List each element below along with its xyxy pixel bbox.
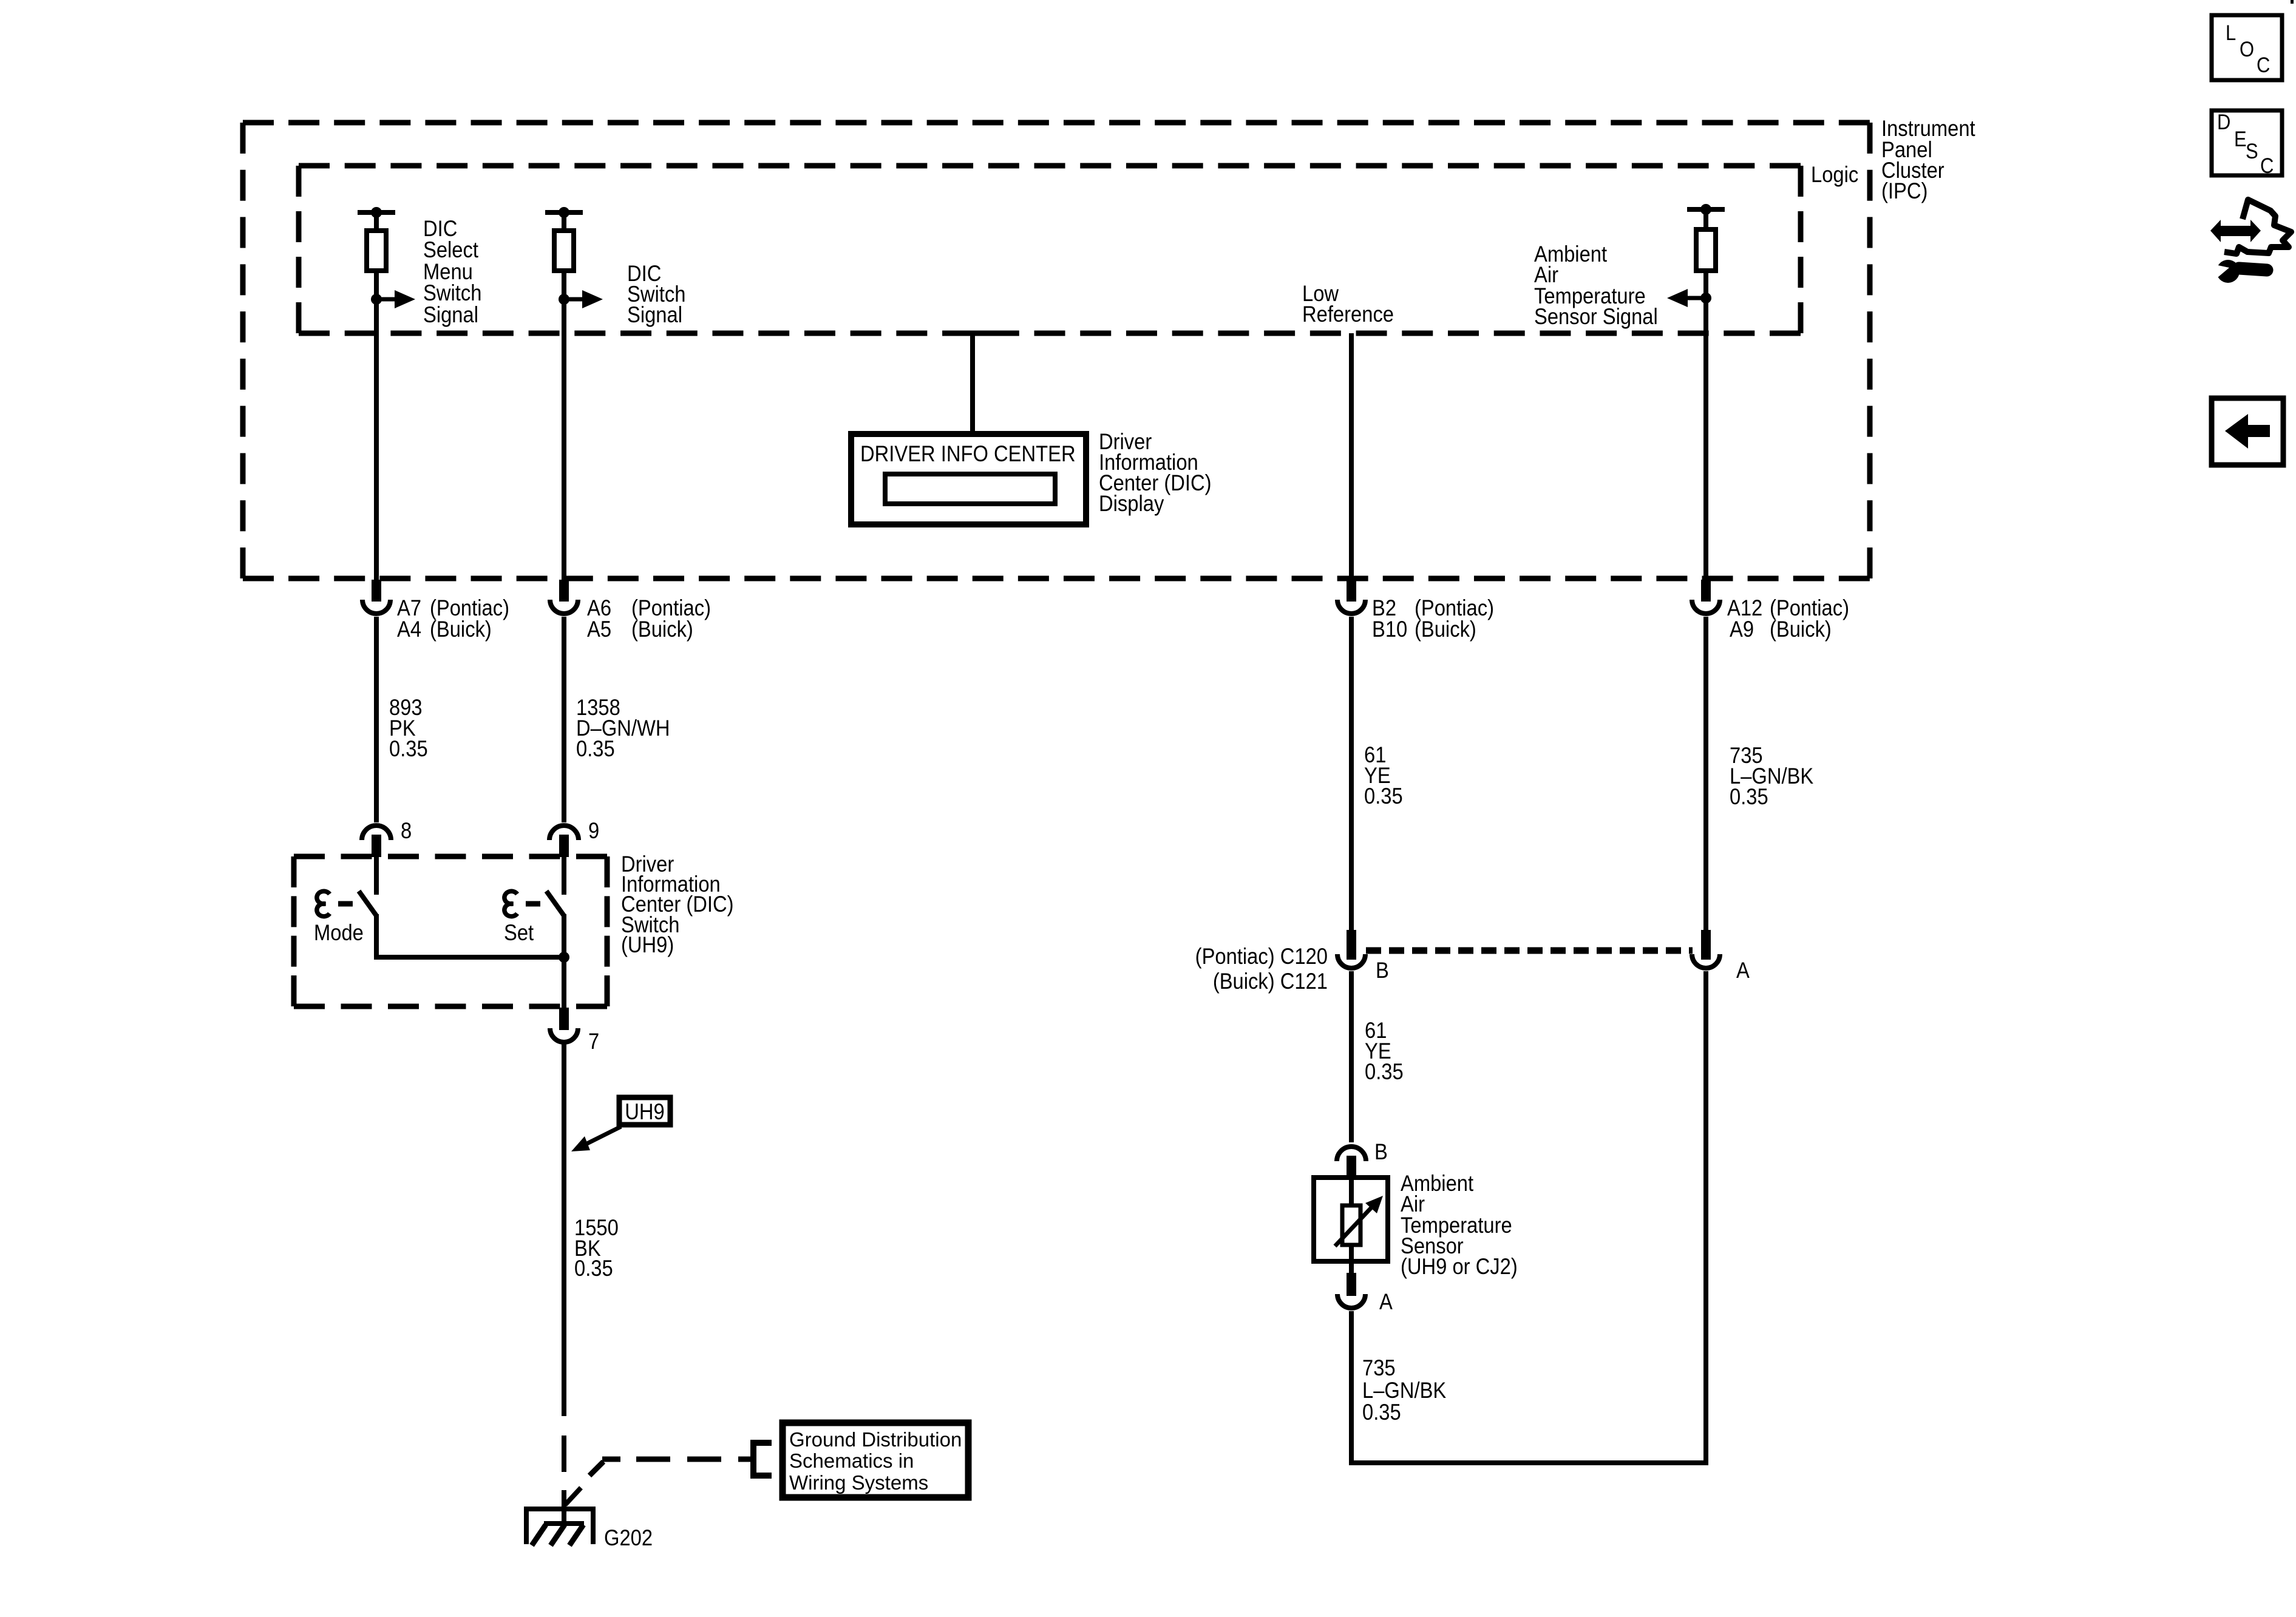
svg-text:(Buick): (Buick) <box>631 617 693 642</box>
label DIC Select Menu Switch Signal <box>423 216 481 327</box>
Ground Distribution Schematics note box <box>783 1423 968 1497</box>
wire switch output bus <box>376 952 569 963</box>
icon back arrow box <box>2212 398 2283 465</box>
svg-text:(IPC): (IPC) <box>1881 178 1927 203</box>
label Logic <box>1811 162 1858 187</box>
svg-text:A9: A9 <box>1730 617 1754 642</box>
svg-text:Sensor Signal: Sensor Signal <box>1534 304 1658 329</box>
connector pin A12 at IPC <box>1692 580 1720 614</box>
Mode switch contact symbol <box>317 891 353 916</box>
wire 61 YE upper <box>1349 617 1354 932</box>
UH9 leader arrow <box>571 1127 621 1151</box>
svg-text:(UH9): (UH9) <box>621 932 674 957</box>
label DIC Switch Signal <box>627 261 685 327</box>
wire label 735 L-GN/BK 0.35 lower <box>1362 1355 1446 1425</box>
svg-text:9: 9 <box>588 818 599 843</box>
connector B at sensor <box>1337 1139 1388 1176</box>
icon LOC box <box>2212 15 2282 80</box>
connector B at C120 <box>1337 930 1389 983</box>
wire stub above Mode switch <box>374 857 379 895</box>
connector pin B2 at IPC <box>1337 580 1365 614</box>
label Mode <box>314 920 364 945</box>
svg-text:8: 8 <box>401 818 412 843</box>
connector A at C120 <box>1692 930 1750 983</box>
svg-text:E: E <box>2234 127 2247 151</box>
label Ambient Air Temperature Sensor Signal <box>1534 242 1658 329</box>
svg-text:(Buick): (Buick) <box>1770 617 1832 642</box>
svg-text:(Buick): (Buick) <box>1415 617 1476 642</box>
junction dot on wire A12 <box>1700 293 1711 303</box>
svg-text:Set: Set <box>504 920 534 945</box>
label (Pontiac) C120 <box>1195 944 1328 994</box>
arrow DIC Select Menu Switch Signal <box>376 290 415 308</box>
label Ambient Air Temperature Sensor (UH9 or CJ2) <box>1401 1171 1518 1279</box>
svg-text:C: C <box>2260 154 2274 178</box>
svg-text:DRIVER INFO CENTER: DRIVER INFO CENTER <box>860 441 1076 466</box>
svg-text:(Buick) C121: (Buick) C121 <box>1213 969 1328 994</box>
wire 1358 D-GN/WH <box>562 617 566 822</box>
wire 735 L-GN/BK lower <box>1349 1311 1354 1465</box>
svg-text:Reference: Reference <box>1302 302 1394 327</box>
svg-text:L: L <box>2226 21 2236 45</box>
connector pin 7 <box>550 1008 599 1054</box>
label Driver Information Center (DIC) Switch (UH9) <box>621 852 734 957</box>
Logic dashed box <box>299 166 1801 333</box>
Set switch contact symbol <box>504 891 540 916</box>
wire stub above Set switch <box>562 857 566 895</box>
resistor R3 pull-up <box>1687 204 1725 580</box>
connector A at sensor <box>1337 1273 1393 1314</box>
wire label 61 YE 0.35 lower <box>1365 1018 1404 1084</box>
wire 735 L-GN/BK upper <box>1703 617 1708 932</box>
svg-text:Ground Distribution: Ground Distribution <box>789 1428 962 1451</box>
UH9 callout box <box>619 1097 670 1125</box>
icon double arrow with wrench <box>2210 200 2291 283</box>
svg-text:0.35: 0.35 <box>576 736 615 761</box>
svg-text:A4: A4 <box>397 617 421 642</box>
svg-text:0.35: 0.35 <box>1364 784 1403 808</box>
pin label A6 (Pontiac) <box>587 595 611 642</box>
connector pin A6 at IPC <box>550 580 578 614</box>
svg-text:O: O <box>2240 38 2254 61</box>
svg-text:0.35: 0.35 <box>1365 1059 1404 1084</box>
Ambient Air Temperature Sensor box <box>1314 1176 1388 1273</box>
icon DESC box <box>2212 110 2282 178</box>
wire bottom loop <box>1351 971 1706 1465</box>
svg-text:A: A <box>1736 958 1750 983</box>
resistor R1 pull-up <box>358 207 395 580</box>
resistor R2 pull-up <box>545 207 583 580</box>
svg-text:Signal: Signal <box>423 302 478 327</box>
svg-text:S: S <box>2246 140 2258 163</box>
label Instrument Panel Cluster (IPC) <box>1881 116 1975 203</box>
svg-text:(Pontiac) C120: (Pontiac) C120 <box>1195 944 1328 969</box>
svg-text:735: 735 <box>1362 1355 1396 1380</box>
Set switch blade <box>546 891 565 1008</box>
svg-text:Signal: Signal <box>627 302 682 327</box>
svg-text:0.35: 0.35 <box>1362 1400 1401 1425</box>
arrow DIC Switch Signal <box>564 290 603 308</box>
svg-text:UH9: UH9 <box>625 1099 664 1124</box>
svg-text:D: D <box>2217 110 2230 134</box>
connector pin A7 at IPC <box>362 580 390 614</box>
connector pin 8 <box>362 818 412 857</box>
svg-text:0.35: 0.35 <box>1730 784 1768 809</box>
pin label B2 (Pontiac) <box>1372 595 1407 642</box>
Instrument Panel Cluster (IPC) dashed box <box>243 123 1870 578</box>
svg-text:A: A <box>1379 1289 1393 1314</box>
svg-text:0.35: 0.35 <box>574 1256 613 1281</box>
connector pin 9 <box>549 818 599 857</box>
svg-text:G202: G202 <box>604 1525 653 1550</box>
wire label 1358 D-GN/WH 0.35 <box>576 695 670 761</box>
dashed branch wire to ground distribution <box>589 1459 754 1476</box>
wire 893 PK <box>374 617 379 822</box>
wire Low Reference <box>1349 333 1354 580</box>
svg-text:C: C <box>2257 53 2270 77</box>
Mode switch blade <box>359 891 377 960</box>
pin label A7 (Pontiac) <box>397 595 421 642</box>
junction dot on wire A7 <box>371 294 382 305</box>
pin label (Pontiac)/(Buick) col B2 <box>1415 595 1494 642</box>
label G202 <box>604 1525 653 1550</box>
pin label (Pontiac)/(Buick) col A12 <box>1770 595 1849 642</box>
svg-text:A5: A5 <box>587 617 611 642</box>
wire 1550 BK dashed section <box>562 1436 566 1525</box>
label Low Reference <box>1302 281 1394 327</box>
pin label (Pontiac)/(Buick) col A7 <box>430 595 509 642</box>
wire 61 YE lower <box>1349 971 1354 1142</box>
DRIVER INFO CENTER display box <box>851 434 1086 524</box>
label Driver Information Center (DIC) Display <box>1099 429 1212 516</box>
pin label (Pontiac)/(Buick) col A6 <box>631 595 711 642</box>
page corner mark <box>2291 0 2294 4</box>
svg-text:Schematics in: Schematics in <box>789 1449 914 1472</box>
svg-text:7: 7 <box>588 1029 599 1054</box>
svg-text:B: B <box>1376 958 1389 983</box>
svg-text:(UH9 or CJ2): (UH9 or CJ2) <box>1401 1254 1518 1279</box>
pin label A12 (Pontiac) <box>1727 595 1762 642</box>
wire label 893 PK 0.35 <box>389 695 428 761</box>
wire 1550 BK solid <box>562 1044 566 1416</box>
dashed line C120/C121 <box>1366 947 1693 954</box>
ground G202 symbol <box>526 1488 593 1545</box>
wire to DIC display <box>966 333 997 434</box>
bracket before ground distribution box <box>753 1443 772 1476</box>
svg-text:B10: B10 <box>1372 617 1407 642</box>
svg-text:Display: Display <box>1099 491 1164 516</box>
wire label 1550 BK 0.35 <box>574 1215 619 1281</box>
junction dot on wire A6 <box>559 294 569 305</box>
svg-text:Logic: Logic <box>1811 162 1858 187</box>
Driver Information Center (DIC) Switch dashed box <box>294 856 607 1006</box>
svg-text:0.35: 0.35 <box>389 736 428 761</box>
svg-text:(Buick): (Buick) <box>430 617 492 642</box>
wire label 61 YE 0.35 upper <box>1364 742 1403 808</box>
wire label 735 L-GN/BK 0.35 upper <box>1730 743 1813 809</box>
svg-text:B: B <box>1374 1139 1388 1164</box>
svg-text:Mode: Mode <box>314 920 364 945</box>
label Set <box>504 920 534 945</box>
svg-text:Wiring Systems: Wiring Systems <box>789 1471 928 1494</box>
arrow Ambient Air Temperature Sensor Signal <box>1667 289 1706 307</box>
